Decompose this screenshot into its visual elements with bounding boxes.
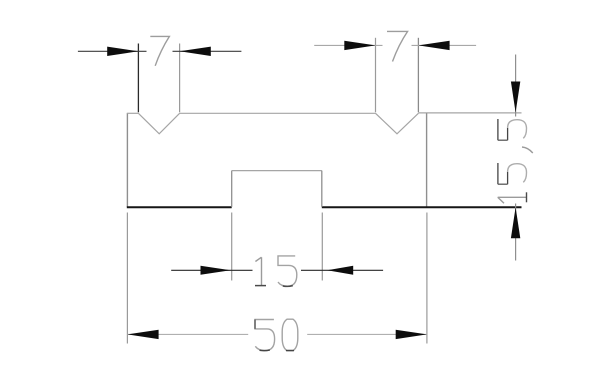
- dimension 15,5: dimension line bottom tail: [515, 204, 517, 261]
- dimension 15,5: top arrowhead pointing down: [511, 82, 520, 113]
- dimension 15: left arrowhead: [201, 266, 231, 275]
- digit 5 (upper) of 15,5: [498, 119, 508, 140]
- dimension 15,5: text 15,5 rotated (reads bottom to top): [498, 119, 533, 203]
- dimension 7 (left): extension line left (dark): [137, 44, 139, 113]
- dimension 15: dimension line left tail: [171, 269, 252, 271]
- dimension 7 (left): text 7: [150, 36, 169, 65]
- dimension 15: extension line right: [321, 213, 323, 281]
- dimension 7 (right): dimension line left tail: [314, 44, 382, 46]
- part outline: left edge: [126, 113, 128, 207]
- dimension 7 (right): left arrowhead: [344, 41, 375, 50]
- part outline: bottom slot right edge: [321, 171, 323, 207]
- part outline: top edge right segment merged with 15,5 top extension line: [418, 112, 521, 114]
- dimension 7 (left): left arrowhead: [107, 47, 138, 56]
- dimension 7 (right): extension line left: [375, 38, 377, 113]
- dimension 7 (right): right arrowhead: [418, 41, 449, 50]
- dimension 7 (left): right arrowhead: [180, 47, 211, 56]
- part outline: right V-notch: [376, 113, 419, 134]
- dimension 7 (right): dimension line right tail: [412, 44, 477, 46]
- part outline: top edge middle segment: [180, 112, 376, 114]
- dimension 15: right arrowhead: [327, 266, 353, 275]
- digit 1 of 15,5: [498, 197, 527, 203]
- dimension 15,5 (right side vertical): dimension line top tail: [515, 55, 517, 117]
- dimension 7 (left): dimension line right tail: [173, 50, 242, 52]
- dimension 7 (left): extension line right: [179, 44, 181, 113]
- comma of 15,5: [522, 147, 533, 153]
- part outline: bottom edge right segment merged with 15,5 bottom extension (thick): [322, 206, 522, 208]
- part outline: bottom edge left segment (thick): [127, 206, 232, 208]
- part outline: top edge left segment: [127, 112, 139, 114]
- dimension 15,5: bottom arrowhead pointing up: [511, 207, 520, 238]
- dimension 15: dimension line right segment: [301, 269, 383, 271]
- part outline: bottom slot top edge: [232, 170, 322, 172]
- dimension 50: right arrowhead pointing right: [396, 330, 427, 339]
- dimension 15 (bottom slot): extension line left: [231, 213, 233, 281]
- dimension 50: text 50: [255, 319, 298, 351]
- part outline: left V-notch: [138, 113, 179, 134]
- dimension 50: dimension line left segment: [127, 333, 248, 335]
- dimension 50: extension line right: [426, 213, 428, 344]
- dimension 50 (overall width): extension line left: [126, 213, 128, 344]
- dimension 7 (right): text 7: [387, 31, 408, 61]
- dimension 15: text 15: [255, 256, 297, 287]
- digit 5 (lower) of 15,5: [498, 163, 508, 184]
- dimension 50: left arrowhead pointing left: [127, 330, 158, 339]
- part outline: bottom slot left edge: [231, 171, 233, 207]
- part outline: right edge: [426, 113, 428, 207]
- dimension 7 (right): extension line right: [417, 38, 419, 113]
- dimension 7 (left): dimension line left tail: [78, 50, 147, 52]
- dimension 50: dimension line right segment: [307, 333, 427, 335]
